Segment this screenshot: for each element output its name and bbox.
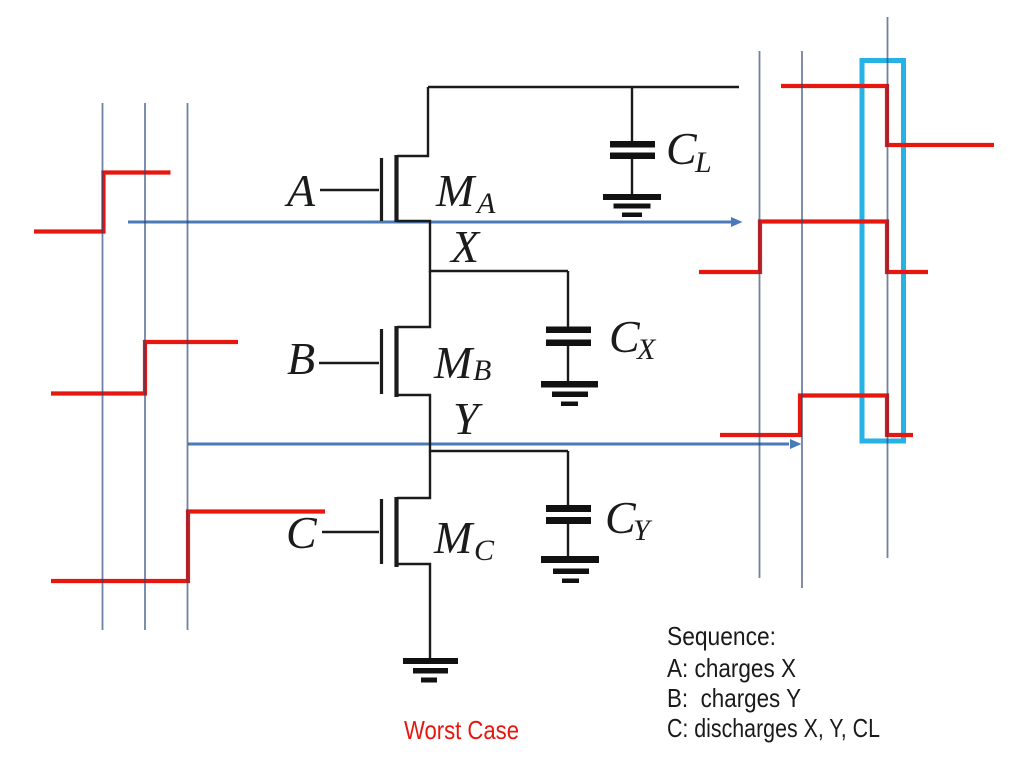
svg-text:X: X (449, 221, 481, 272)
svg-text:B: charges Y: B: charges Y (667, 683, 801, 713)
svg-text:C: C (474, 534, 495, 567)
svg-text:M: M (433, 337, 475, 388)
svg-text:C: C (666, 123, 698, 174)
svg-text:Worst Case: Worst Case (404, 715, 519, 745)
svg-text:Sequence:: Sequence: (667, 621, 776, 651)
svg-text:B: B (287, 333, 315, 384)
svg-text:C: C (286, 507, 318, 558)
svg-text:M: M (433, 512, 475, 563)
svg-text:X: X (636, 333, 657, 366)
svg-text:B: B (473, 354, 491, 387)
svg-text:C: discharges X, Y, CL: C: discharges X, Y, CL (667, 713, 880, 743)
svg-text:A: A (284, 165, 316, 216)
svg-text:A: A (475, 187, 496, 220)
svg-text:L: L (694, 146, 712, 179)
svg-text:A: charges X: A: charges X (667, 653, 796, 683)
svg-text:Y: Y (453, 393, 483, 444)
svg-text:M: M (435, 165, 477, 216)
